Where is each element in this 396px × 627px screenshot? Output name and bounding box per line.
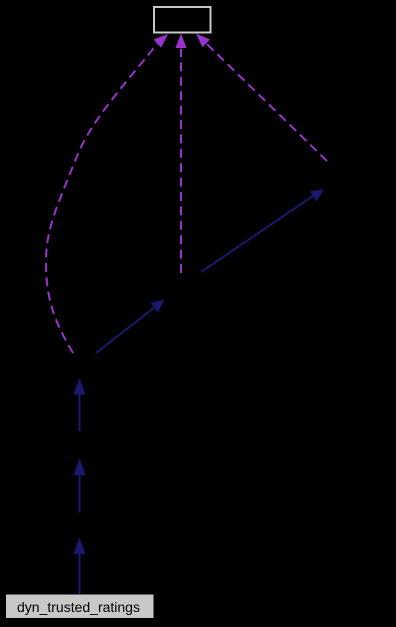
wire edge dyn_trusted_ratings to node A (solid)	[74, 538, 86, 595]
wire edge node C to top box (dashed curve)	[46, 34, 168, 353]
svg-text:dyn_trusted_ratings: dyn_trusted_ratings	[17, 599, 140, 615]
wire edge node C to node D (solid diagonal)	[96, 300, 165, 354]
wire edge node D to node E (solid diagonal)	[201, 189, 324, 272]
node top box	[154, 7, 211, 33]
wire edge node A to node B (solid)	[74, 459, 86, 513]
wire edge node D to top box (dashed vertical)	[176, 34, 187, 274]
wire edge node B to node C (solid)	[74, 378, 86, 431]
wire edge node E to top box (dashed diagonal)	[196, 34, 327, 162]
node dyn_trusted_ratings	[6, 595, 154, 619]
